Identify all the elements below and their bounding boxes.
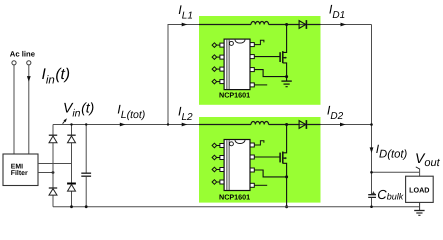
pin 4 U1 left <box>212 79 224 84</box>
junction dot branch <box>167 123 169 125</box>
op-amp U2 (NCP1601 IC body) <box>224 140 250 191</box>
arrow Iin <box>27 76 31 82</box>
svg-text:NCP1601: NCP1601 <box>219 193 250 202</box>
junction dot EMI lower to bridge <box>52 171 55 174</box>
label Cbulk <box>377 187 403 202</box>
wire output top to load <box>372 171 420 173</box>
label Iin(t) <box>42 66 71 86</box>
pin 2 U1 left <box>212 55 224 60</box>
wire AC right lead <box>28 65 30 154</box>
ground channel 1 <box>281 77 291 87</box>
junction dot source channel2 on rail <box>285 205 288 208</box>
junction dot drain channel2 <box>285 123 288 126</box>
pin 5 U1 right stub <box>250 83 267 87</box>
junction dot rail right column <box>70 205 73 208</box>
arrow IL(tot) <box>120 123 126 127</box>
label ID1 <box>329 2 345 20</box>
ground load <box>414 202 424 215</box>
diode bridge bottom-left <box>49 188 57 195</box>
wire bridge right column <box>71 125 73 207</box>
pin 1 U1 left <box>212 43 224 48</box>
transistor Q2 MOSFET <box>280 125 287 207</box>
pin 1 U2 left <box>212 143 224 148</box>
pin 8 U2 right Vcc hook <box>250 141 264 147</box>
label IL1 <box>178 3 193 21</box>
junction dot top rail cap column <box>85 123 87 125</box>
label NCP1601 #2 <box>219 193 250 202</box>
pin 6 U2 right to source node <box>250 168 287 177</box>
label IL2 <box>178 105 193 123</box>
op-amp U1 (NCP1601 IC body) <box>224 39 250 90</box>
label Vout <box>415 150 441 169</box>
pin 7 U2 right to gate <box>250 155 280 159</box>
label IL(tot) <box>117 102 145 120</box>
svg-text:Ac line: Ac line <box>10 50 36 59</box>
capacitor bridge filter <box>81 173 91 176</box>
wire branch to channel 1 <box>168 25 372 125</box>
arrow ID2 <box>340 123 346 127</box>
transistor Q1 MOSFET <box>280 25 287 77</box>
pin 3 U2 left <box>212 167 224 172</box>
pin 4 U2 left <box>212 180 224 185</box>
diode bridge top-left <box>49 135 57 143</box>
EMI filter box <box>3 154 38 186</box>
svg-text:Filter: Filter <box>11 170 28 177</box>
diode bridge top-right <box>67 135 75 143</box>
wire EMI output lower <box>38 172 53 174</box>
junction dot top rail right column <box>70 123 72 125</box>
pin 8 U1 right Vcc hook <box>250 40 264 46</box>
arrow IL2 <box>182 123 188 127</box>
arrow Vin probe tick <box>63 118 67 124</box>
wire bridge cap column <box>85 125 87 207</box>
wire EMI output upper <box>38 163 72 165</box>
diode bridge bottom-right <box>67 184 76 192</box>
inductor L1 <box>251 22 269 25</box>
highlight box channel 1 (NCP1601 #1) <box>199 16 321 105</box>
pin 5 U2 right stub <box>250 183 267 187</box>
junction dot rail cap column <box>85 205 88 208</box>
wire bottom rail <box>53 206 420 208</box>
pin 3 U1 left <box>212 67 224 72</box>
svg-text:LOAD: LOAD <box>409 186 429 195</box>
arrow Vout probe tick <box>416 167 420 172</box>
diode D1 <box>299 20 306 29</box>
wire output right vertical <box>371 25 373 207</box>
junction dot source channel1 <box>285 75 288 78</box>
arrow ID(tot) <box>370 147 374 153</box>
wire AC left lead <box>13 65 15 154</box>
svg-text:NCP1601: NCP1601 <box>219 91 250 100</box>
junction dot rail Cbulk <box>370 205 373 208</box>
inductor L2 <box>251 122 269 125</box>
junction dot ID2 join <box>370 123 373 126</box>
AC line label <box>10 50 36 59</box>
wire channel2 in-box rail <box>199 124 321 126</box>
AC terminal right <box>27 61 31 65</box>
wire stub into load <box>419 172 421 176</box>
pin 2 U2 left <box>212 155 224 160</box>
arrow IL1 <box>182 23 188 27</box>
LOAD box <box>406 176 434 202</box>
wire top rail (rectified bus) <box>53 124 372 126</box>
pin 6 U1 right to source node <box>250 68 287 77</box>
wire channel1 in-box rail <box>199 24 321 26</box>
AC terminal left <box>12 61 16 65</box>
pin 7 U1 right to gate <box>250 55 280 59</box>
junction dot output wire <box>370 171 373 174</box>
diode D2 <box>299 120 306 129</box>
junction dot pin6 channel2 <box>285 175 288 178</box>
wire bridge left column <box>52 125 54 207</box>
junction dot drain channel1 <box>285 23 288 26</box>
highlight box channel 2 (NCP1601 #2) <box>199 117 321 203</box>
label ID(tot) <box>376 142 408 160</box>
arrow ID1 <box>341 23 347 27</box>
label NCP1601 #1 <box>219 91 250 100</box>
capacitor Cbulk <box>368 192 376 198</box>
label Vin(t) <box>63 100 94 120</box>
label ID2 <box>327 103 344 121</box>
